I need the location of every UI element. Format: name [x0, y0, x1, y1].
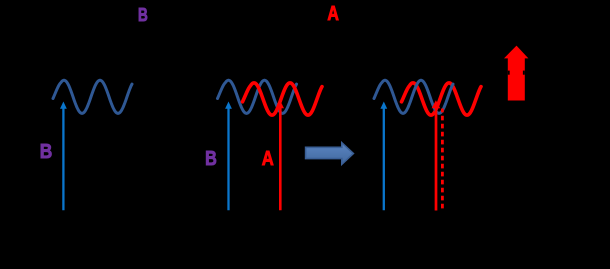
wave A panel 3 (red sine, re-phased) — [402, 83, 482, 115]
arrow B panel 2 (blue up arrow) — [225, 102, 232, 211]
arrow A panel 2 (red up arrow) — [277, 101, 284, 211]
wave B panel 1 (blue sine) — [53, 80, 132, 113]
svg-text:A: A — [262, 147, 274, 170]
wave B panel 3 (blue sine) — [374, 80, 453, 113]
wave B panel 2 (blue sine) — [218, 80, 297, 113]
svg-text:B: B — [205, 148, 217, 170]
arrow B panel 3 (blue up arrow) — [380, 102, 387, 211]
svg-text:A: A — [327, 2, 339, 25]
block arrow (blue right arrow between panels) — [306, 143, 354, 165]
arrow A panel 3 (red solid up arrow) — [432, 100, 441, 210]
arrow A panel 3 (red dashed up arrow, phase shift indicator) — [441, 109, 444, 209]
wave A panel 2 (red sine, phase-shifted) — [243, 83, 323, 115]
arrow B panel 1 (blue up arrow) — [60, 102, 67, 211]
svg-text:B: B — [40, 140, 53, 163]
big red arrow (output intensity up) — [504, 46, 528, 101]
svg-text:B: B — [138, 4, 148, 25]
